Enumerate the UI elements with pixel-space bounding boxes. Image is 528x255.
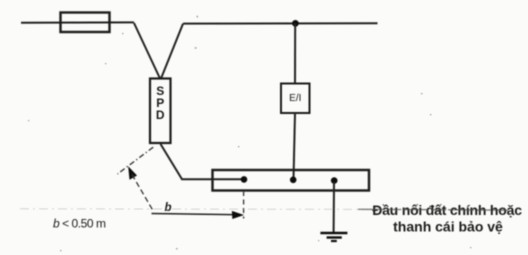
wire SPD bottom diagonal to busbar (161, 144, 245, 179)
extension dashed vertical from busbar node 1 (243, 191, 245, 219)
faint scan line across page (20, 208, 522, 211)
wire diagonal down to SPD top (134, 23, 160, 79)
fuse F1 (overcurrent protective device) (61, 13, 110, 33)
dimension line diagonal (dashed) (132, 175, 154, 212)
dimension arrowhead upper-left (129, 167, 137, 179)
wire E/I down to busbar (294, 113, 296, 180)
node dot 3 on busbar (331, 177, 338, 184)
node junction on top line (292, 20, 299, 27)
faint scan line overlapping text (strikethrough artifact) (358, 208, 508, 211)
svg-text:b < 0.50 m: b < 0.50 m (53, 217, 106, 231)
node dot 1 on busbar (241, 176, 248, 183)
dimension arrowhead right (232, 211, 243, 218)
scan noise specks (non-semantic) (28, 16, 471, 251)
wire busbar down to ground (333, 182, 335, 233)
svg-text:D: D (156, 108, 165, 122)
node dot 2 on busbar (290, 177, 297, 184)
svg-text:b: b (165, 202, 172, 214)
wire left supply into fuse (21, 21, 134, 23)
wire junction down to E/I (294, 23, 296, 84)
svg-text:thanh cái bảo vệ: thanh cái bảo vệ (393, 219, 503, 235)
wire diagonal up from SPD top to line (161, 24, 183, 79)
wire top horizontal line (183, 22, 378, 24)
ground symbol (320, 232, 347, 235)
equipment E/I (281, 84, 310, 114)
dimension line horizontal b (152, 214, 241, 215)
dimension extension line from SPD terminal (dash-dot) (118, 147, 154, 174)
busbar (main earthing terminal) (213, 170, 370, 191)
SPD U1 (surge protective device) (150, 79, 171, 144)
svg-text:E/I: E/I (289, 93, 301, 104)
